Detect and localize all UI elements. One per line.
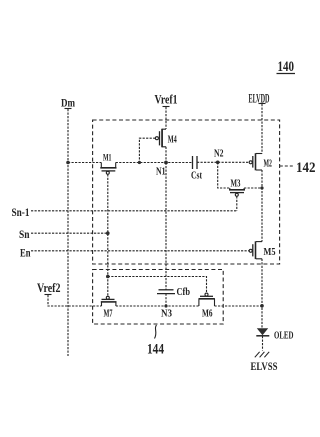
wire Vref2 down and right to M7 bbox=[48, 295, 102, 306]
wire N2 down to M3 left bbox=[218, 162, 230, 188]
svg-text:N2: N2 bbox=[214, 149, 224, 160]
junction dot M4 gate/N1 wire bbox=[138, 161, 141, 164]
svg-text:M7: M7 bbox=[104, 309, 113, 320]
node ELVDD label bbox=[249, 92, 270, 106]
svg-text:Cst: Cst bbox=[191, 171, 203, 182]
wire Cfb bottom to N3 bbox=[165, 294, 167, 306]
svg-text:Cfb: Cfb bbox=[177, 287, 191, 298]
svg-text:M4: M4 bbox=[168, 134, 177, 146]
junction dot node N1 bbox=[164, 161, 168, 165]
wire N3 segment M6 to rail bbox=[215, 305, 263, 307]
junction dot M3/rail bbox=[260, 186, 263, 189]
wire Vref1 to M4 top bbox=[165, 107, 167, 129]
node Dm label bbox=[61, 96, 75, 110]
capacitor Cfb bbox=[157, 287, 190, 298]
svg-text:N3: N3 bbox=[161, 309, 172, 320]
junction dot Sn/M1 gate bbox=[106, 231, 110, 235]
wire M3 gate down to Sn-1 bbox=[236, 196, 238, 211]
svg-text:Vref1: Vref1 bbox=[155, 93, 178, 107]
wire M3 right to rail bbox=[244, 187, 262, 189]
junction dot M7 gate column bbox=[106, 275, 110, 279]
svg-text:M6: M6 bbox=[202, 309, 213, 320]
svg-text:OLED: OLED bbox=[274, 330, 294, 342]
svg-text:144: 144 bbox=[147, 342, 164, 358]
ground ELVSS terminal slashes bbox=[255, 352, 269, 358]
junction dot node N2 bbox=[216, 161, 220, 165]
wire M7 gate junction to M6 gate bbox=[108, 277, 207, 294]
transistor M7 bbox=[101, 296, 117, 319]
wire M2 drain rail down to M5 bbox=[261, 170, 263, 242]
wire Dm to M1 left bbox=[68, 162, 101, 164]
diode OLED bbox=[256, 328, 293, 341]
svg-text:M2: M2 bbox=[264, 159, 273, 170]
dashed box 144 bbox=[93, 270, 224, 325]
wire Sn-1 horizontal to M3 gate bbox=[31, 210, 237, 212]
wire Sn horizontal to M1/M7 gate column bbox=[31, 232, 108, 234]
transistor M4 bbox=[155, 129, 177, 147]
label 144 with leader bbox=[147, 325, 164, 358]
wire M1 right to node N1 and Cst bbox=[116, 162, 193, 164]
svg-text:Dm: Dm bbox=[61, 96, 75, 110]
junction dot Dm/M1 bbox=[66, 161, 70, 165]
svg-text:Sn-1: Sn-1 bbox=[12, 207, 30, 219]
junction dot Cfb bottom/N3 wire bbox=[164, 304, 167, 307]
capacitor Cst bbox=[191, 156, 203, 182]
svg-text:M1: M1 bbox=[103, 154, 112, 164]
wire Cst right to node N2 and M2 gate bbox=[197, 161, 249, 163]
dashed box 142 bbox=[93, 120, 280, 264]
svg-text:M3: M3 bbox=[231, 179, 241, 190]
wire M4 gate left and down to N1 wire (diode connection) bbox=[139, 138, 155, 162]
wire ELVDD to M2 top bbox=[261, 104, 263, 154]
node Vref2 label bbox=[37, 281, 61, 295]
transistor M3 bbox=[229, 179, 245, 197]
wire En horizontal to M5 gate bbox=[31, 250, 249, 252]
wire M4 bottom to node N1 bbox=[165, 147, 167, 163]
label 142 with leader bbox=[280, 160, 316, 176]
wire Dm vertical data line bbox=[67, 109, 69, 356]
node Vref1 label bbox=[155, 93, 178, 107]
transistor M1 bbox=[100, 154, 116, 175]
wire N3 segment M7 to M6 bbox=[116, 305, 199, 307]
wire N1 column down through scan lines to Cfb top bbox=[165, 163, 167, 290]
junction dot N3 wire/rail bbox=[260, 304, 264, 308]
wire M5 bottom rail down to OLED node bbox=[261, 259, 263, 328]
svg-text:Vref2: Vref2 bbox=[37, 281, 61, 295]
svg-text:N1: N1 bbox=[156, 166, 166, 177]
svg-text:ELVSS: ELVSS bbox=[251, 359, 278, 373]
svg-text:142: 142 bbox=[296, 160, 316, 176]
transistor M5 bbox=[249, 241, 276, 259]
svg-text:En: En bbox=[20, 248, 31, 260]
transistor M6 bbox=[199, 293, 215, 319]
wire M1 gate down to Sn and M7 gate bbox=[107, 174, 109, 296]
svg-text:M5: M5 bbox=[264, 246, 276, 258]
svg-text:Sn: Sn bbox=[19, 229, 30, 241]
figure number 140 bbox=[277, 59, 296, 75]
transistor M2 bbox=[249, 153, 272, 170]
wire OLED to ELVSS terminal bbox=[262, 336, 264, 351]
svg-text:140: 140 bbox=[278, 59, 295, 75]
